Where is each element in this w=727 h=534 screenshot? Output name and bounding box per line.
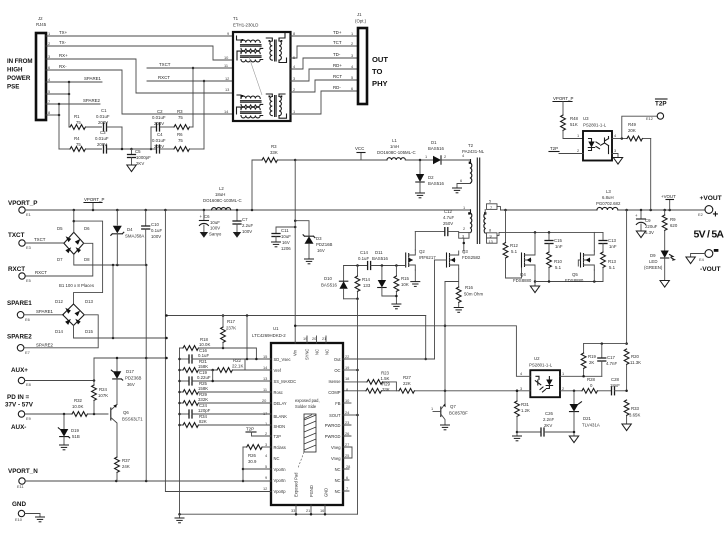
resistor R14 bbox=[355, 266, 371, 299]
svg-text:D1: D1 bbox=[431, 140, 437, 145]
wire VPORT_P rail bbox=[25, 209, 470, 212]
svg-text:6: 6 bbox=[346, 475, 348, 480]
svg-text:0.01uF: 0.01uF bbox=[95, 136, 109, 141]
svg-text:2: 2 bbox=[351, 41, 353, 46]
T2 secondary winding bbox=[484, 209, 487, 233]
svg-text:BLANK: BLANK bbox=[274, 414, 288, 419]
svg-text:4.7uF: 4.7uF bbox=[443, 215, 454, 220]
svg-text:2: 2 bbox=[444, 154, 446, 159]
svg-text:R37: R37 bbox=[122, 458, 131, 463]
svg-text:R25: R25 bbox=[199, 381, 208, 386]
svg-text:NC: NC bbox=[335, 489, 341, 494]
svg-text:R3: R3 bbox=[271, 144, 277, 149]
svg-text:PHY: PHY bbox=[372, 79, 388, 88]
svg-text:2.2nF: 2.2nF bbox=[543, 417, 554, 422]
svg-text:250V: 250V bbox=[443, 221, 453, 226]
svg-text:36V: 36V bbox=[127, 382, 135, 387]
svg-text:11: 11 bbox=[224, 63, 228, 68]
svg-text:133: 133 bbox=[363, 283, 371, 288]
wire bridge1 right to RXCT bbox=[25, 243, 93, 276]
svg-text:27: 27 bbox=[345, 442, 349, 447]
svg-text:0.1uF: 0.1uF bbox=[151, 228, 162, 233]
svg-text:exposed pad,: exposed pad, bbox=[295, 398, 320, 403]
resistor R26 bbox=[243, 445, 271, 464]
T2 pins 5-7 box bbox=[487, 199, 501, 211]
svg-text:C14: C14 bbox=[360, 250, 369, 255]
svg-text:C9: C9 bbox=[645, 218, 651, 223]
svg-text:Vportn: Vportn bbox=[274, 467, 287, 472]
ground C6 bbox=[200, 232, 208, 238]
svg-text:33: 33 bbox=[291, 508, 295, 513]
svg-text:237K: 237K bbox=[226, 326, 236, 331]
svg-text:19: 19 bbox=[345, 365, 349, 370]
svg-text:0.1uF: 0.1uF bbox=[198, 353, 209, 358]
svg-text:VCC: VCC bbox=[355, 146, 364, 151]
inductor L2 bbox=[203, 186, 242, 210]
svg-text:D21: D21 bbox=[583, 416, 592, 421]
svg-text:21: 21 bbox=[306, 508, 310, 513]
svg-text:7: 7 bbox=[48, 99, 50, 104]
svg-text:100V: 100V bbox=[242, 229, 252, 234]
wire OC row bbox=[343, 369, 359, 372]
U1 top pin names bbox=[293, 349, 330, 360]
wire neg drop x146 bbox=[145, 265, 147, 481]
svg-text:8: 8 bbox=[293, 31, 295, 36]
svg-text:+VOUT: +VOUT bbox=[700, 195, 722, 202]
svg-text:10uF: 10uF bbox=[281, 234, 291, 239]
svg-text:TX+: TX+ bbox=[59, 30, 68, 35]
svg-text:2: 2 bbox=[577, 148, 579, 153]
svg-text:AUX+: AUX+ bbox=[11, 367, 28, 374]
label plus bbox=[713, 210, 719, 221]
svg-text:C5: C5 bbox=[135, 149, 141, 154]
mosfet Q4 FDS8880 bbox=[513, 251, 535, 283]
label IN FROM HIGH POWER PSE bbox=[7, 58, 32, 91]
svg-text:R29: R29 bbox=[199, 392, 208, 397]
connector J1 (Opt.) bbox=[355, 12, 367, 104]
svg-text:R34: R34 bbox=[199, 414, 208, 419]
svg-text:R15: R15 bbox=[401, 276, 410, 281]
svg-text:VPORT_P: VPORT_P bbox=[553, 96, 573, 101]
svg-text:PDZ16B: PDZ16B bbox=[316, 242, 333, 247]
svg-text:T2P: T2P bbox=[246, 427, 254, 432]
svg-text:PWRGD: PWRGD bbox=[325, 423, 341, 428]
wire RCT bbox=[291, 74, 359, 92]
wire U3 pin3 ground bbox=[612, 154, 623, 165]
svg-text:D15: D15 bbox=[85, 329, 94, 334]
svg-text:82K: 82K bbox=[199, 419, 207, 424]
svg-text:R9: R9 bbox=[670, 217, 676, 222]
capacitor C9 bbox=[635, 210, 658, 235]
svg-text:2.2uF: 2.2uF bbox=[242, 223, 253, 228]
svg-text:TXCT: TXCT bbox=[159, 62, 171, 67]
svg-text:(Opt.): (Opt.) bbox=[355, 19, 367, 24]
svg-text:6: 6 bbox=[48, 65, 50, 70]
svg-text:8: 8 bbox=[48, 110, 50, 115]
svg-text:VPORT_N: VPORT_N bbox=[8, 468, 38, 475]
svg-text:E7: E7 bbox=[25, 350, 30, 355]
terminal E1 VPORT_P bbox=[8, 200, 37, 217]
ground D9 bbox=[660, 281, 669, 288]
svg-text:D4: D4 bbox=[127, 227, 133, 232]
svg-text:E5: E5 bbox=[26, 278, 31, 283]
svg-text:3: 3 bbox=[520, 386, 522, 391]
svg-text:D8: D8 bbox=[84, 257, 90, 262]
resistor R48 bbox=[561, 115, 583, 139]
svg-text:1: 1 bbox=[351, 31, 353, 36]
svg-text:C3: C3 bbox=[100, 130, 106, 135]
svg-text:50m Ohm: 50m Ohm bbox=[464, 292, 483, 297]
svg-text:DELAY: DELAY bbox=[274, 401, 287, 406]
svg-text:12: 12 bbox=[225, 76, 229, 81]
svg-text:120pF: 120pF bbox=[198, 408, 211, 413]
svg-text:+VOUT: +VOUT bbox=[661, 194, 676, 199]
wire Q4 drain bbox=[534, 232, 536, 251]
svg-text:Vneg: Vneg bbox=[331, 456, 341, 461]
wire Q5 source bbox=[593, 270, 595, 282]
svg-text:NC: NC bbox=[315, 349, 320, 355]
svg-text:SMAJ58A: SMAJ58A bbox=[125, 234, 144, 239]
svg-text:15: 15 bbox=[263, 354, 267, 359]
wire C2 left drop bbox=[150, 127, 152, 149]
svg-text:L2: L2 bbox=[219, 186, 224, 191]
svg-text:3.65K: 3.65K bbox=[629, 413, 640, 418]
svg-text:7: 7 bbox=[490, 205, 492, 210]
svg-text:18nF: 18nF bbox=[610, 383, 620, 388]
optocoupler U2 PS2801-1-L bbox=[520, 356, 564, 397]
wire RX+ bbox=[46, 53, 233, 93]
svg-text:24K: 24K bbox=[122, 464, 130, 469]
svg-text:2: 2 bbox=[265, 431, 267, 436]
transformer T1 ETH1-230LD bbox=[233, 16, 291, 121]
wire TX+ bbox=[46, 30, 233, 36]
svg-text:200V: 200V bbox=[98, 120, 108, 125]
svg-text:23: 23 bbox=[345, 420, 349, 425]
capacitor C2 bbox=[151, 109, 166, 132]
svg-text:37V - 57V: 37V - 57V bbox=[5, 402, 34, 409]
svg-text:17: 17 bbox=[263, 411, 267, 416]
svg-text:220uF: 220uF bbox=[645, 224, 658, 229]
svg-text:BAS516: BAS516 bbox=[372, 256, 389, 261]
snubber C15 bbox=[544, 232, 562, 252]
T1 pin numbers left bbox=[224, 31, 229, 114]
svg-text:200V: 200V bbox=[154, 144, 164, 149]
svg-text:1mH: 1mH bbox=[390, 144, 399, 149]
svg-text:RCT: RCT bbox=[333, 74, 342, 79]
svg-text:COMP: COMP bbox=[328, 390, 341, 395]
svg-text:PS2801-1-L: PS2801-1-L bbox=[529, 363, 553, 368]
resistor R21 bbox=[180, 359, 218, 373]
wire Vneg bus vertical bbox=[357, 299, 359, 514]
svg-text:16: 16 bbox=[320, 508, 324, 513]
ground bottom rail bbox=[175, 514, 185, 523]
svg-text:3: 3 bbox=[48, 54, 50, 59]
svg-text:Q4: Q4 bbox=[520, 272, 526, 277]
wire Vneg loop bbox=[343, 447, 352, 458]
capacitor C3 bbox=[95, 130, 132, 154]
svg-text:DO1608C-105ML-C: DO1608C-105ML-C bbox=[377, 150, 416, 155]
svg-text:D6: D6 bbox=[84, 226, 90, 231]
svg-text:RXCT: RXCT bbox=[8, 266, 25, 273]
svg-text:19: 19 bbox=[303, 336, 307, 341]
svg-text:ETH1-230LD: ETH1-230LD bbox=[233, 23, 258, 28]
svg-text:D12: D12 bbox=[55, 299, 64, 304]
svg-text:10uF: 10uF bbox=[210, 220, 220, 225]
svg-text:1: 1 bbox=[577, 133, 579, 138]
svg-text:TCT: TCT bbox=[333, 40, 342, 45]
resistor R20 bbox=[624, 349, 641, 391]
svg-text:51K: 51K bbox=[570, 122, 578, 127]
svg-text:E4: E4 bbox=[699, 257, 705, 262]
wire SPARE2 stub bbox=[46, 98, 101, 105]
resistor R28 bbox=[582, 377, 612, 393]
ground D2 bbox=[415, 193, 425, 198]
svg-text:U2: U2 bbox=[534, 356, 540, 361]
svg-text:D17: D17 bbox=[126, 369, 135, 374]
svg-text:200V: 200V bbox=[97, 142, 107, 147]
svg-text:SPARE1: SPARE1 bbox=[84, 76, 102, 81]
svg-text:D13: D13 bbox=[85, 299, 94, 304]
resistor R3 bbox=[252, 144, 296, 210]
svg-text:C26: C26 bbox=[545, 411, 554, 416]
svg-text:SYNC: SYNC bbox=[305, 349, 310, 360]
svg-text:10.0K: 10.0K bbox=[199, 342, 210, 347]
U1 pin numbers left bbox=[262, 354, 268, 491]
svg-text:T2P: T2P bbox=[550, 146, 558, 151]
wire Vin vertical bbox=[294, 160, 296, 343]
svg-text:+: + bbox=[713, 210, 719, 221]
svg-text:C2: C2 bbox=[157, 109, 163, 114]
capacitor C28 bbox=[610, 377, 628, 395]
svg-text:NC: NC bbox=[335, 467, 341, 472]
svg-text:22: 22 bbox=[345, 354, 349, 359]
wire RXCT drop bbox=[203, 80, 206, 149]
svg-text:51B: 51B bbox=[72, 434, 80, 439]
svg-text:T2P: T2P bbox=[274, 434, 282, 439]
wire SPARE1 stub bbox=[46, 76, 102, 83]
T2 core bbox=[477, 158, 479, 244]
resistor R18 bbox=[180, 337, 257, 359]
svg-text:C19: C19 bbox=[199, 370, 208, 375]
svg-text:E12: E12 bbox=[646, 116, 653, 121]
svg-text:22.1K: 22.1K bbox=[232, 364, 243, 369]
resistor R32 bbox=[25, 398, 108, 416]
svg-text:Isense: Isense bbox=[328, 379, 341, 384]
svg-text:VPORT_P: VPORT_P bbox=[84, 197, 104, 202]
terminal E10 GND bbox=[12, 501, 26, 522]
gate RC network row bbox=[344, 261, 406, 270]
svg-text:22K: 22K bbox=[403, 381, 411, 386]
wire TX- bbox=[46, 40, 233, 60]
T2 pins 9-13 box bbox=[487, 228, 604, 244]
svg-text:PA2431-NL: PA2431-NL bbox=[462, 149, 485, 154]
svg-text:C1: C1 bbox=[101, 108, 107, 113]
svg-text:B1 100 x 8 Places: B1 100 x 8 Places bbox=[59, 283, 95, 288]
capacitor C6 electrolytic bbox=[199, 210, 222, 237]
svg-text:2: 2 bbox=[463, 226, 465, 231]
wire Out row bbox=[343, 358, 435, 360]
svg-text:30.9: 30.9 bbox=[248, 459, 257, 464]
wire TXCT top bbox=[147, 62, 233, 68]
svg-text:Solder Side: Solder Side bbox=[295, 404, 317, 409]
wire C1 to rowB bbox=[121, 127, 123, 149]
transformer T2 PA2431-NL bbox=[462, 143, 485, 154]
svg-text:5: 5 bbox=[48, 89, 50, 94]
svg-text:5.1: 5.1 bbox=[609, 265, 616, 270]
svg-text:SOUT: SOUT bbox=[329, 413, 341, 418]
wire VPORT_N row bbox=[25, 480, 271, 483]
net flag VCC bbox=[355, 146, 365, 160]
svg-text:1.2K: 1.2K bbox=[521, 408, 530, 413]
ground E10 bbox=[25, 514, 45, 522]
wire FB row stub bbox=[343, 402, 351, 404]
svg-text:FDS8880: FDS8880 bbox=[565, 278, 584, 283]
svg-text:E8: E8 bbox=[26, 382, 31, 387]
wire secondary top rail bbox=[501, 209, 598, 212]
terminal E12 bbox=[646, 113, 664, 121]
svg-text:TLV431A: TLV431A bbox=[582, 423, 600, 428]
T1 RX transformer vertical bbox=[266, 94, 286, 118]
ground R15 bbox=[391, 304, 401, 309]
wire pin15 drop bbox=[246, 316, 248, 360]
svg-text:J1: J1 bbox=[357, 12, 362, 17]
chassis ground C5 bbox=[127, 165, 136, 172]
svg-text:Q6: Q6 bbox=[123, 410, 129, 415]
svg-text:1nF: 1nF bbox=[555, 244, 563, 249]
svg-text:Q5: Q5 bbox=[572, 272, 578, 277]
resistor R3 term bbox=[160, 109, 193, 129]
svg-text:C12: C12 bbox=[444, 209, 453, 214]
diode bridge D5 D6 D7 D8 bbox=[57, 226, 90, 262]
svg-text:2: 2 bbox=[293, 87, 295, 92]
label T2P bar bbox=[655, 99, 667, 108]
svg-text:TXCT: TXCT bbox=[8, 232, 25, 239]
resistor R23 bbox=[343, 371, 396, 391]
capacitor C17 bbox=[597, 344, 617, 377]
svg-text:HIGH: HIGH bbox=[7, 67, 23, 74]
capacitor C4 bbox=[151, 132, 166, 154]
svg-text:Vportn: Vportn bbox=[274, 478, 287, 483]
wire J2 pin5 bbox=[46, 82, 70, 127]
svg-text:4.7nF: 4.7nF bbox=[606, 361, 617, 366]
svg-text:NC: NC bbox=[274, 456, 280, 461]
wire RD+ bbox=[291, 63, 359, 81]
resistor R24 bbox=[92, 381, 109, 415]
resistor R17 bbox=[221, 314, 237, 348]
svg-text:LTC4269HDKD-2: LTC4269HDKD-2 bbox=[252, 333, 286, 338]
label 5V 5A bbox=[694, 228, 725, 240]
svg-text:620: 620 bbox=[670, 223, 678, 228]
svg-text:Vportp: Vportp bbox=[274, 489, 287, 494]
connector J2 RJ45 bbox=[36, 16, 47, 120]
svg-text:R1: R1 bbox=[74, 114, 80, 119]
svg-text:R12: R12 bbox=[510, 243, 519, 248]
svg-text:9: 9 bbox=[490, 233, 492, 238]
wire TXCT drop bbox=[192, 67, 195, 127]
terminal E2 bbox=[698, 206, 713, 217]
net flag VPORT_P bbox=[84, 197, 104, 210]
svg-text:1: 1 bbox=[293, 109, 295, 114]
svg-text:Sanyo: Sanyo bbox=[209, 232, 222, 237]
svg-text:E10: E10 bbox=[15, 517, 23, 522]
wire D10 R14 bottom bbox=[344, 298, 359, 301]
wire spare-bridge link bbox=[74, 221, 103, 304]
svg-text:5.1: 5.1 bbox=[511, 249, 518, 254]
ground Q7 bbox=[440, 425, 450, 430]
mosfet Q2 IRF6217 bbox=[406, 249, 437, 270]
svg-text:Rosc: Rosc bbox=[274, 390, 283, 395]
wire J2 pin8 bbox=[46, 104, 60, 149]
ground Q4 bbox=[530, 282, 539, 293]
terminal E8 AUX+ bbox=[11, 367, 31, 387]
svg-text:BSS63LT1: BSS63LT1 bbox=[122, 417, 143, 422]
svg-text:75: 75 bbox=[178, 138, 183, 143]
svg-text:NC: NC bbox=[335, 478, 341, 483]
ground D21 bbox=[569, 431, 578, 443]
wire TXCT to bridge bbox=[25, 242, 64, 244]
diode D10 BAS516 bbox=[321, 266, 348, 299]
zener D19 bbox=[58, 414, 80, 445]
svg-text:3: 3 bbox=[614, 148, 616, 153]
svg-text:U1: U1 bbox=[273, 326, 279, 331]
shunt D21 TLV431A bbox=[546, 391, 599, 432]
svg-text:6.8uH: 6.8uH bbox=[602, 195, 614, 200]
wire TD+ bbox=[291, 30, 359, 36]
svg-text:RD-: RD- bbox=[333, 85, 341, 90]
svg-text:RX-: RX- bbox=[59, 64, 67, 69]
svg-text:TD-: TD- bbox=[333, 52, 341, 57]
ground T2 pin6 bbox=[452, 188, 462, 193]
svg-text:OUT: OUT bbox=[372, 55, 388, 64]
wire Q5 drain bbox=[593, 232, 595, 251]
wire Q4 source to rail bbox=[534, 270, 537, 283]
resistor R30 delay bbox=[180, 392, 272, 406]
snubber R10 bbox=[547, 252, 563, 282]
terminal E4 bbox=[691, 250, 713, 262]
svg-text:BC857BF: BC857BF bbox=[449, 411, 468, 416]
ground R33 bbox=[622, 424, 631, 431]
svg-text:33K: 33K bbox=[270, 150, 278, 155]
wire TCT bbox=[291, 40, 359, 58]
sense resistor R16 bbox=[445, 269, 483, 308]
capacitor C12 clamp bbox=[415, 209, 458, 236]
label B1 note bbox=[59, 283, 95, 288]
wire neg drop x113 bbox=[112, 265, 114, 338]
svg-text:R26: R26 bbox=[248, 453, 257, 458]
svg-text:5: 5 bbox=[265, 464, 267, 469]
svg-text:6: 6 bbox=[460, 178, 462, 183]
svg-text:T2: T2 bbox=[468, 143, 474, 148]
svg-text:5: 5 bbox=[351, 75, 353, 80]
wire bridge1 top bbox=[73, 210, 76, 232]
svg-text:D2: D2 bbox=[428, 175, 434, 180]
node rowB junctions bbox=[121, 148, 153, 151]
inductor L1 bbox=[377, 138, 416, 160]
svg-text:E3: E3 bbox=[26, 245, 31, 250]
svg-text:R10: R10 bbox=[554, 259, 563, 264]
wire U2 pin2 row bbox=[560, 390, 582, 393]
svg-text:R49: R49 bbox=[628, 122, 637, 127]
svg-text:D10: D10 bbox=[324, 276, 333, 281]
resistor bank bus bbox=[178, 348, 181, 514]
svg-text:E1: E1 bbox=[26, 212, 31, 217]
svg-text:16V: 16V bbox=[317, 248, 325, 253]
resistor R6 term bbox=[160, 132, 204, 151]
svg-text:PSE: PSE bbox=[7, 84, 19, 91]
svg-text:5: 5 bbox=[293, 55, 295, 60]
svg-text:BAS516: BAS516 bbox=[428, 181, 445, 186]
svg-text:0.01uF: 0.01uF bbox=[152, 115, 166, 120]
